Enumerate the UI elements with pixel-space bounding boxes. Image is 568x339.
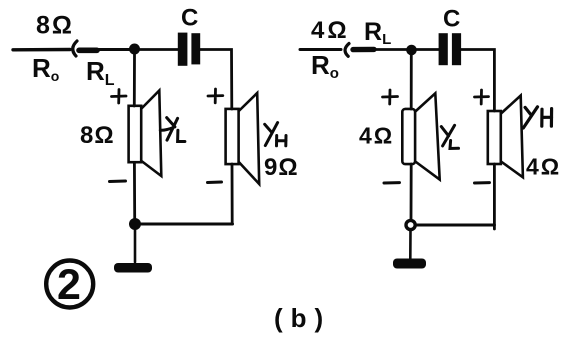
svg-text:C: C xyxy=(181,5,198,32)
speaker YH cone (tweeter, right) xyxy=(501,96,523,178)
label − (tweeter bottom, right) xyxy=(475,181,490,184)
wire: bottom node to ground (left) xyxy=(134,229,137,262)
svg-text:2: 2 xyxy=(57,261,81,309)
wire: right input lead xyxy=(300,48,341,51)
svg-text:8Ω: 8Ω xyxy=(80,122,115,149)
label + (woofer top, right) xyxy=(383,90,398,104)
label − (woofer bottom, left) xyxy=(110,180,126,184)
label + (tweeter top, left) xyxy=(208,89,223,103)
wire: bottom bus (left) xyxy=(135,223,233,226)
wire: break to input node (left) xyxy=(96,48,131,51)
capacitor C (left), plate 2 xyxy=(191,33,200,64)
wire: node to capacitor (left) xyxy=(140,48,178,51)
source break mark (right) xyxy=(345,44,349,57)
node: bottom junction open circle (right) xyxy=(406,220,415,229)
label YL (right, handwritten Y with subscript L) xyxy=(441,125,458,148)
wire: bottom node to ground (right) xyxy=(409,230,412,259)
wire: tweeter to bottom bus (left) xyxy=(231,164,234,224)
label − (woofer bottom, right) xyxy=(384,181,400,184)
wire: thick segment after break (left) xyxy=(79,47,97,53)
wire: tweeter to bottom bus (right) xyxy=(493,164,496,229)
label + (woofer top, left) xyxy=(112,90,127,104)
wire: woofer to bottom node (left) xyxy=(133,163,136,220)
svg-text:C: C xyxy=(443,6,460,33)
speaker YL driver (woofer, left) xyxy=(129,106,142,162)
svg-text:4Ω: 4Ω xyxy=(311,17,350,44)
wire: capacitor to tweeter branch (right) xyxy=(461,50,494,112)
wire: bottom bus (right) xyxy=(411,224,494,227)
speaker YL cone (woofer, right) xyxy=(415,93,439,179)
speaker YL driver (woofer, right) xyxy=(402,109,415,164)
label YL (left, handwritten Y with subscript L) xyxy=(160,118,185,142)
figure number badge 2 xyxy=(46,261,93,308)
node: bottom junction dot (left) xyxy=(129,218,141,230)
speaker YH cone (tweeter, left) xyxy=(239,93,259,184)
speaker YL cone (woofer, left) xyxy=(142,91,162,177)
wire: woofer to bottom node (right) xyxy=(410,164,413,219)
svg-text:4Ω: 4Ω xyxy=(526,154,561,180)
svg-text:8Ω: 8Ω xyxy=(36,12,74,40)
capacitor C (left), plate 1 xyxy=(178,33,188,66)
svg-text:Ro: Ro xyxy=(311,50,339,82)
speaker YH driver (tweeter, left) xyxy=(226,109,239,164)
svg-text:RL: RL xyxy=(86,56,115,89)
wire: capacitor to tweeter branch (left) xyxy=(200,50,232,110)
wire: node to capacitor (right) xyxy=(416,48,439,51)
wire: node down to woofer (left) xyxy=(133,54,136,106)
node: input junction dot (right) xyxy=(406,45,417,56)
speaker YH driver (tweeter, right) xyxy=(488,111,501,164)
svg-text:9Ω: 9Ω xyxy=(264,154,299,181)
ground (left) xyxy=(114,263,152,273)
ground (right) xyxy=(393,259,426,269)
wire: node down to woofer (right) xyxy=(410,55,413,109)
svg-text:4Ω: 4Ω xyxy=(359,123,394,149)
label + (tweeter top, right) xyxy=(475,90,489,104)
label YH (right, handwritten Y and H) xyxy=(523,107,551,128)
wire: thick segment after break (right) xyxy=(353,47,374,53)
wire: break to input node (right) xyxy=(373,48,407,51)
wire: left input lead xyxy=(13,48,70,52)
label − (tweeter bottom, left) xyxy=(208,181,222,185)
capacitor C (right), plate 1 xyxy=(439,33,448,65)
svg-text:(b): (b) xyxy=(274,303,331,333)
label YH (left, handwritten Y with subscript H) xyxy=(265,123,286,146)
svg-text:Ro: Ro xyxy=(32,53,59,84)
node: input junction dot (left) xyxy=(129,44,140,55)
capacitor C (right), plate 2 xyxy=(452,33,461,65)
svg-text:RL: RL xyxy=(364,18,391,48)
source break mark (left) xyxy=(73,41,77,56)
